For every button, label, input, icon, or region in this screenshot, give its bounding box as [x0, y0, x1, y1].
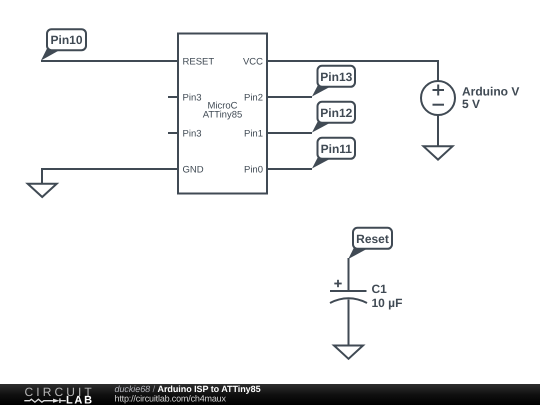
svg-text:RESET: RESET	[183, 56, 215, 67]
wire: Pin1 pin to Pin12 flag	[267, 132, 312, 134]
net flag Pin10	[41, 29, 86, 60]
logo resistor squiggle	[24, 399, 53, 402]
svg-text:Pin0: Pin0	[244, 164, 263, 175]
IC U1 MicroC ATTiny85	[178, 34, 267, 194]
svg-text:LAB: LAB	[66, 395, 94, 405]
svg-text:Pin2: Pin2	[244, 92, 263, 103]
svg-text:VCC: VCC	[243, 56, 263, 67]
logo diode arrow	[53, 399, 60, 403]
svg-text:5 V: 5 V	[462, 97, 480, 111]
C1 top plate	[330, 290, 367, 292]
svg-text:http://circuitlab.com/ch4maux: http://circuitlab.com/ch4maux	[115, 394, 227, 404]
wire: GND pin to ground	[42, 169, 178, 184]
svg-text:Pin1: Pin1	[244, 128, 263, 139]
C1 bottom plate (curved)	[330, 298, 367, 303]
wire: Pin0 pin to Pin11 flag	[267, 168, 312, 170]
svg-text:10 µF: 10 µF	[372, 296, 403, 310]
ground (IC GND net)	[28, 184, 57, 197]
ground (V1 negative)	[424, 146, 453, 159]
wire: V1 to ground	[437, 114, 439, 147]
svg-text:ATTiny85: ATTiny85	[203, 109, 243, 120]
C1 plus mark	[334, 280, 341, 287]
wire: Reset flag to C1	[348, 258, 350, 291]
wire: C1 to ground	[348, 300, 350, 346]
minus symbol	[433, 104, 445, 106]
footer bar	[0, 384, 540, 405]
svg-text:Pin3: Pin3	[183, 128, 202, 139]
net flag Reset	[348, 228, 392, 259]
svg-text:C1: C1	[372, 282, 388, 296]
CircuitLab logo	[24, 385, 95, 405]
net flag Pin12	[312, 102, 355, 133]
pin stub: Pin3 upper (no connect)	[168, 96, 178, 98]
wire: Pin10 flag to RESET pin	[41, 60, 178, 62]
wire: Pin2 pin to Pin13 flag	[267, 96, 312, 98]
svg-text:GND: GND	[183, 164, 204, 175]
ground (C1 negative)	[334, 346, 363, 359]
svg-text:Pin10: Pin10	[50, 33, 82, 47]
wire: VCC pin to voltage source V1	[267, 61, 438, 82]
svg-text:Pin12: Pin12	[320, 106, 352, 120]
net flag Pin11	[312, 138, 355, 169]
capacitor C1 10 uF (polarized)	[330, 280, 367, 303]
svg-text:duckie68 / Arduino ISP to ATTi: duckie68 / Arduino ISP to ATTiny85	[115, 384, 261, 394]
svg-text:Pin13: Pin13	[320, 70, 352, 84]
pin stub: Pin3 lower (no connect)	[168, 132, 178, 134]
svg-text:Pin3: Pin3	[183, 92, 202, 103]
voltage source V1 Arduino V 5 V	[421, 81, 455, 115]
plus symbol	[433, 89, 445, 91]
svg-text:Reset: Reset	[356, 232, 389, 246]
net flag Pin13	[312, 66, 355, 97]
svg-text:Pin11: Pin11	[321, 142, 353, 156]
